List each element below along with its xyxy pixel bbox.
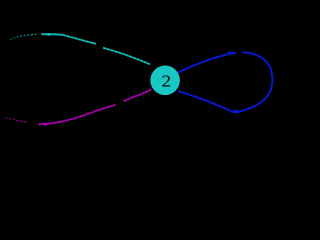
arrowhead on teal edge 2->L (tip points left) [41,33,50,36]
arrowhead on blue top edge 2->R (tip points right) [228,51,236,54]
fade of magenta curve tail at far left [0,112,32,127]
node 2 (teal circle) [150,66,180,96]
edge 2->L teal dashed arc, faint left tail [10,34,36,40]
arrowhead on magenta edge (tip points left) [38,123,47,126]
svg-text:2: 2 [161,72,171,90]
teal bright solid run under/after arrowhead [41,33,63,36]
edge 2->R blue dashed arc (top), before gap [178,53,236,73]
magenta bright solid run under/after arrowhead [38,122,61,125]
fade of teal curve tail at far left [0,28,36,50]
edge 2->L magenta dashed arc, faint leftmost segment [5,118,27,122]
teal dashed arc toward big gap [63,35,96,44]
blue bottom arc, segment near node 2 [178,91,230,111]
arrowhead on blue bottom edge R->2 (tip points left) [230,110,239,113]
blue right closure arc (top after gap, around right, to bottom arrow) [230,52,272,112]
magenta dashed arc, segment near node 2 [124,89,152,101]
magenta dashed arc, middle segment [61,105,115,122]
edge 2->L teal dashed arc, segment after pattern gap [103,48,150,65]
